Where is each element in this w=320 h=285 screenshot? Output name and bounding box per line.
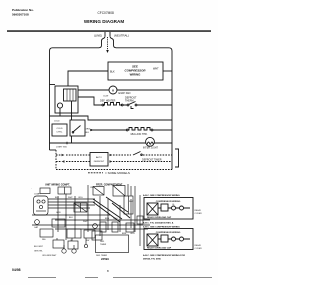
defrost timer large box [96,235,129,253]
connector arrow upper left [62,154,65,156]
svg-text:(NEUTRAL): (NEUTRAL) [114,33,129,37]
svg-text:GRN: GRN [56,212,61,214]
svg-text:ORG: ORG [130,233,135,235]
terminal circle detail 1b [180,206,184,210]
relay pictorial hatched [74,203,87,212]
svg-text:= SOME MODELS: = SOME MODELS [105,171,130,175]
svg-text:BRN: BRN [105,218,110,220]
svg-text:COVER: COVER [195,213,203,215]
defrost thermostat switch [127,104,129,106]
wire drop to lamp line [71,136,73,143]
svg-text:COLD: COLD [54,121,60,123]
compressor shell [34,196,49,215]
grouping bracket [175,149,179,167]
scattered wire labels [34,187,135,242]
footer rules [28,276,212,278]
duct channel pictorial [124,196,133,214]
svg-text:A.B.C. SEE COMPRESSOR WIRING F: A.B.C. SEE COMPRESSOR WIRING FOR [143,254,185,257]
connector plug pictorial B [40,229,53,237]
svg-text:MULLION HTR.: MULLION HTR. [131,133,148,136]
header publication number [12,8,34,17]
lower connector box A [53,240,64,248]
pictorial title [30,184,123,191]
wire bottom corner [50,149,57,151]
lamp row junction tick [66,142,68,145]
connector plug pictorial D [84,230,95,238]
terminal circle detail 2a [172,237,176,241]
svg-text:COLD: COLD [56,128,62,130]
svg-text:(LINE): (LINE) [94,33,102,37]
pictorial horizontal rows [32,215,150,229]
interior light lamp [146,137,155,146]
grommet circle [93,224,98,229]
svg-text:5995307108: 5995307108 [12,13,29,17]
svg-text:RELAY: RELAY [195,244,202,247]
svg-text:WHT: WHT [129,201,134,203]
mullion heater terminal node right [151,129,153,131]
svg-text:RELAY OVERLOAD CAP: RELAY OVERLOAD CAP [147,247,172,250]
svg-text:UNIT WIRING COMPT.: UNIT WIRING COMPT. [45,184,70,187]
svg-text:COMPRESSOR WIRING: COMPRESSOR WIRING [156,201,181,203]
terminal circle detail 2b [180,237,184,241]
switch assembly inner box [64,89,77,101]
relay block detail 2 [147,234,158,246]
svg-text:INTER. LIGHT: INTER. LIGHT [143,147,159,149]
overload block detail 2 [161,235,168,242]
ring terminal B [72,249,76,253]
connector plug pictorial C [67,229,81,238]
dashed row lower [56,161,90,163]
wire neutral side top run [110,36,172,169]
svg-text:CTRL.: CTRL. [56,132,63,134]
svg-text:GRN YEL: GRN YEL [34,251,44,253]
cold control housing box [55,86,78,113]
wire mullion heater row [90,129,172,131]
label (LINE) [94,33,102,37]
bus lines from compressor [48,199,95,208]
timer switch on dashed row [133,152,141,156]
svg-text:A.B.C. SEE COMPRESSOR WIRING: A.B.C. SEE COMPRESSOR WIRING [143,194,180,197]
svg-text:COMP.: COMP. [34,194,41,196]
terminal box small [40,188,50,194]
overload block detail 1 [161,204,168,211]
compressor box [108,62,163,80]
svg-text:WHT: WHT [153,68,159,71]
splice sleeve pictorial B [112,222,118,232]
wire links detail 1 [158,207,190,209]
svg-text:BLK: BLK [69,217,73,219]
legend some models [88,172,103,174]
heater terminal node right [121,104,123,106]
svg-text:ORG BRN WHT: ORG BRN WHT [42,255,57,257]
svg-text:04/98: 04/98 [12,268,21,272]
terminal block pictorial [58,187,71,194]
ground lead dashed with arrow [107,37,109,50]
wire heater row [78,97,172,105]
wire inner drop [71,101,73,120]
svg-text:ORG: ORG [85,129,90,131]
vertical harness drops [58,185,140,246]
header model number [98,11,115,15]
door switch box [70,120,85,136]
evap fan motor circle [109,86,117,94]
svg-text:AUTO: AUTO [96,156,102,159]
fan bracket pictorial crosshatched [113,186,125,197]
mullion heater element zigzag [128,128,152,131]
svg-text:DETAIL P.N. 5995: DETAIL P.N. 5995 [143,258,162,261]
header rule [7,30,211,32]
connector arrow upper right [110,154,113,156]
svg-text:BLK: BLK [55,197,59,199]
power cord plug prongs [105,32,110,36]
svg-text:Publication No.: Publication No. [12,8,34,12]
bottom small labels row [34,246,57,257]
svg-text:TIMER: TIMER [100,244,107,246]
svg-text:DEFROST: DEFROST [94,161,105,163]
header title WIRING DIAGRAM [84,19,124,24]
dashed enclosure some-models [55,150,57,170]
junction dots [57,214,121,226]
lower grommet circle [84,244,87,247]
svg-text:DEFROST TIMER: DEFROST TIMER [142,158,162,161]
wire control box feed [50,84,56,86]
dashed wires to timer cluster [113,154,172,156]
svg-text:BRN: BRN [122,233,127,235]
lower connector box B [68,241,78,249]
svg-text:ORG: ORG [113,218,118,220]
run capacitor circle [35,220,40,225]
wire links detail 2 [158,238,190,240]
svg-text:A.B.C. P.N. 216954700 REV. A: A.B.C. P.N. 216954700 REV. A [143,222,174,225]
svg-text:BLK WHT: BLK WHT [34,246,44,248]
light bulb circle [57,103,62,108]
svg-text:RELAY: RELAY [195,209,202,212]
defrost heater element zigzag [103,103,122,106]
footer date code [12,268,21,272]
part number 23599 [101,257,109,261]
adaptive defrost box [90,153,108,167]
label def heater [100,100,116,103]
svg-text:COVER: COVER [195,248,203,250]
heater terminal node left [102,104,104,106]
svg-text:ORG: ORG [78,197,83,199]
footer page number [107,269,109,273]
svg-text:23599: 23599 [101,257,109,261]
svg-text:LIGHT SW.: LIGHT SW. [56,147,67,149]
dashed row upper [56,154,90,156]
splice sleeve pictorial A [100,222,106,232]
lower connector stubs [57,238,86,244]
mullion heater terminal node left [126,129,128,131]
svg-text:BLK: BLK [110,71,115,74]
svg-text:A.B.C. SEE COMPRESSOR WIRING: A.B.C. SEE COMPRESSOR WIRING [143,225,180,228]
svg-text:OL: OL [172,204,175,206]
svg-text:CAP: CAP [34,226,39,229]
connector plug pictorial A [52,219,65,227]
junction box pictorial [93,187,104,196]
svg-text:WIRING: WIRING [130,73,142,77]
label (NEUTRAL) [114,33,129,37]
relay block detail 1 [147,203,158,215]
svg-text:RELAY OVERLOAD CAP: RELAY OVERLOAD CAP [147,216,172,219]
wire BLK lead to compressor box [68,71,108,86]
svg-text:WHT: WHT [83,221,88,223]
svg-text:FRZR. COMPARTMENT: FRZR. COMPARTMENT [96,184,123,187]
harness thick diagonals [93,197,130,222]
splice sleeve pictorial C [126,223,134,232]
wire lamp row [50,142,173,144]
connector arrow lower left [62,160,65,162]
svg-text:BLK: BLK [85,132,90,134]
connector arrow lower right [110,160,113,162]
svg-text:DEF.: DEF. [100,241,105,243]
svg-text:COMPRESSOR WIRING: COMPRESSOR WIRING [156,232,181,234]
wire fan row [78,89,172,91]
svg-text:THERM.: THERM. [125,100,134,103]
wire row plain [50,116,173,120]
svg-text:WHT: WHT [68,197,73,199]
svg-text:SW: SW [86,240,89,242]
cold control box [54,121,60,123]
ring terminal A [62,249,66,253]
terminal circle detail 1a [172,206,176,210]
ring terminal leads [64,245,74,249]
svg-text:→: → [30,188,32,190]
defrost timer terminal box [92,231,102,240]
svg-text:CFC07M08: CFC07M08 [98,11,115,15]
wire WHT lead from compressor box [163,70,172,72]
svg-text:EVAP. FAN: EVAP. FAN [119,92,131,95]
right connector stack [137,216,143,224]
svg-text:WIRING DIAGRAM: WIRING DIAGRAM [84,19,124,24]
wire line side top run [50,36,106,150]
